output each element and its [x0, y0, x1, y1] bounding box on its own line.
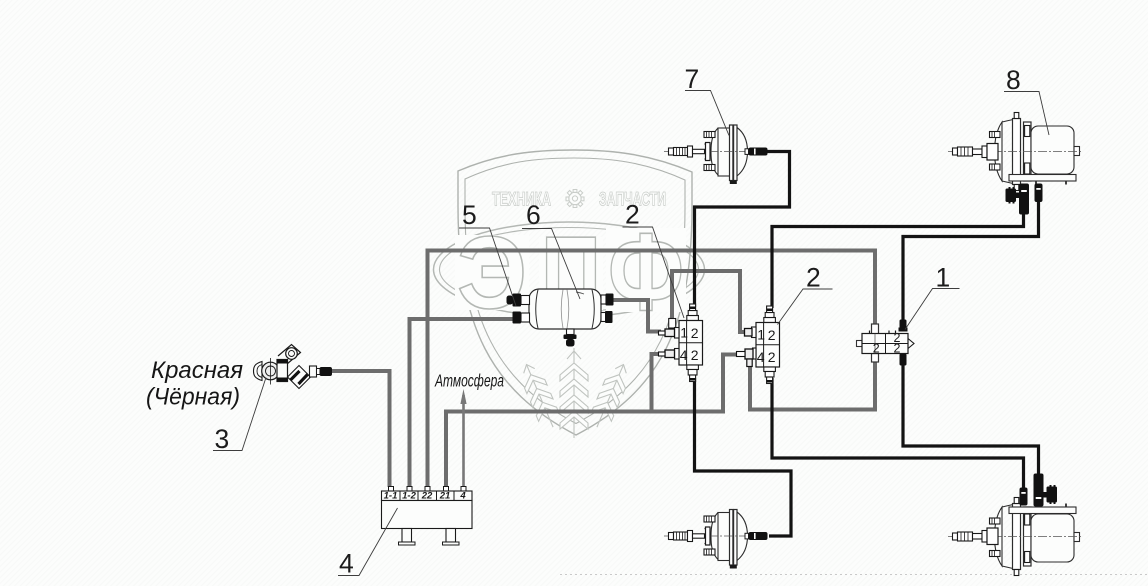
watermark gear — [566, 190, 584, 208]
svg-text:2: 2 — [894, 342, 901, 356]
svg-text:5: 5 — [462, 200, 477, 230]
svg-text:4: 4 — [339, 549, 354, 579]
svg-text:1-1: 1-1 — [384, 491, 398, 502]
svg-text:Атмосфера: Атмосфера — [434, 371, 504, 391]
svg-text:Красная: Красная — [151, 357, 243, 384]
watermark ЭПФ letters — [455, 211, 686, 334]
wire tee branch to valve U1 port 4 — [652, 354, 662, 412]
wire valve 1 top-right port to chamber 8 fitting 2 — [903, 200, 1039, 324]
svg-text:22: 22 — [421, 491, 433, 502]
fitting 1 on lower-right chamber — [1034, 474, 1058, 507]
svg-text:7: 7 — [685, 64, 700, 94]
wire valve U1 bottom port to lower-left chamber — [695, 378, 792, 536]
watermark shield logo — [458, 150, 692, 435]
wire valve U2 top port to chamber 8 fitting 1 — [772, 213, 1024, 308]
svg-text:6: 6 — [526, 200, 541, 230]
label 8 leader — [1004, 92, 1049, 136]
svg-text:2: 2 — [873, 342, 880, 356]
svg-text:21: 21 — [439, 491, 451, 502]
label 4 leader — [338, 508, 398, 576]
fitting 2 on lower-right chamber — [1020, 488, 1028, 506]
label 1 leader — [905, 289, 960, 330]
leader lines — [213, 91, 1049, 576]
svg-text:4: 4 — [459, 491, 466, 502]
small mark near shield top right — [704, 165, 710, 170]
label 5 leader — [459, 228, 516, 306]
brake chamber 7 (top centre) — [664, 125, 768, 184]
label 6 leader — [522, 229, 580, 300]
brake chamber lower-left — [664, 510, 768, 569]
wire manifold 1-2 to cylinder 6 lower-left port — [410, 319, 515, 487]
wire manifold 21 to port-4 line of valves — [446, 355, 738, 488]
atmosphere line with arrow — [462, 395, 465, 487]
svg-text:8: 8 — [1006, 65, 1021, 95]
wire manifold 22 to valve U3 top-left port — [428, 251, 876, 488]
port fittings of second valve 2 — [737, 327, 757, 367]
spring brake chamber lower-right — [948, 498, 1082, 576]
wire valve 1 bottom-right port to lower-right chamber fitting 1 — [903, 363, 1039, 475]
svg-text:2: 2 — [806, 263, 821, 293]
air cylinder 6 (centre) — [507, 289, 614, 347]
text annotations — [146, 357, 504, 411]
svg-text:1-2: 1-2 — [402, 491, 416, 502]
wire brake chamber 7 to valve U1 top port — [695, 152, 790, 308]
wire cylinder 6 right port to valve U1 port 1 — [613, 300, 661, 332]
item number labels — [215, 64, 1021, 579]
brake crane 3 (left) — [254, 345, 333, 389]
connection block 4 (manifold) — [382, 487, 473, 546]
watermark wheat ears — [516, 348, 633, 438]
faint dotted artifact line along bottom — [560, 574, 1148, 576]
spring brake chamber 8 (top right) — [948, 113, 1082, 191]
svg-text:2: 2 — [625, 200, 640, 230]
label 2b leader — [778, 289, 833, 325]
svg-text:(Чёрная): (Чёрная) — [146, 384, 240, 411]
watermark oval — [434, 222, 705, 317]
wire valve3 to manifold port 1-1 — [331, 371, 390, 487]
svg-text:1: 1 — [936, 263, 951, 293]
wire port1 tee to valve U2 port 1 — [672, 271, 747, 332]
label 2a leader — [623, 227, 685, 318]
label 7 leader — [685, 91, 729, 136]
wire valve U2 bottom port to lower-right chamber fitting 2 — [772, 378, 1024, 490]
port 1 fittings of first valve 2 with tee stem — [659, 319, 680, 360]
wire valve U2 port4 stem to valve 1 bottom port — [750, 360, 875, 410]
fitting 2 on chamber 8 — [1035, 184, 1043, 203]
relay valve 2 (first, centre) — [679, 304, 703, 382]
relay valve 2 (second) — [756, 306, 780, 384]
svg-text:3: 3 — [215, 424, 230, 454]
fitting 1 on chamber 8 — [1006, 184, 1030, 215]
watermark top text — [492, 190, 666, 211]
svg-text:ТЕХНИКА: ТЕХНИКА — [492, 190, 551, 211]
label 3 leader — [213, 378, 266, 451]
arrowhead atmosphere — [460, 389, 466, 404]
pressure limiting valve 1 (right) — [857, 320, 915, 366]
